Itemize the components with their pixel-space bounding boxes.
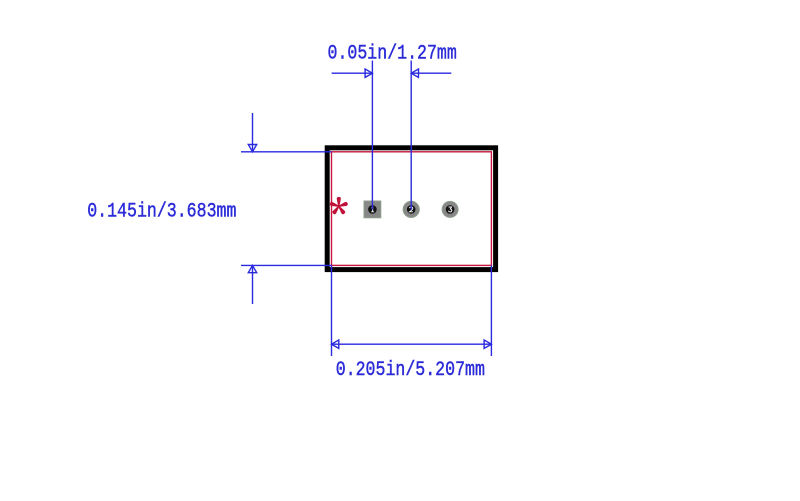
courtyard outline (black thick rectangle) [327,148,495,270]
dimension: width left extension line [331,265,333,356]
dimension: width right extension line [490,265,492,356]
pin 1 hole with number [368,205,377,214]
pad 2 (round) [403,201,419,217]
pad 3 (round) [442,201,458,217]
dimension: height upper leader with arrow [248,113,256,152]
dimension: pin pitch extension line pin1 [371,61,373,210]
pin 1 marker (red asterisk) [329,197,348,215]
dimension: height lower leader with arrow [248,265,256,304]
dimension: pin pitch extension line pin2 [410,61,412,210]
dimension: height top extension line [241,151,332,153]
svg-text:0.145in/3.683mm: 0.145in/3.683mm [87,199,236,223]
svg-text:0.05in/1.27mm: 0.05in/1.27mm [328,41,457,65]
dimension: pin pitch left leader with arrow [332,69,373,77]
pin 2 hole with number [407,205,416,214]
pin 3 hole with number [446,205,455,214]
dimension: width line with arrows [332,340,492,348]
dimension: pin pitch right leader with arrow [411,69,451,77]
dimension: height bottom extension line [241,264,332,266]
pad 1 (square) [364,201,381,218]
svg-text:0.205in/5.207mm: 0.205in/5.207mm [336,357,485,381]
package body outline (red rectangle) [332,152,492,266]
